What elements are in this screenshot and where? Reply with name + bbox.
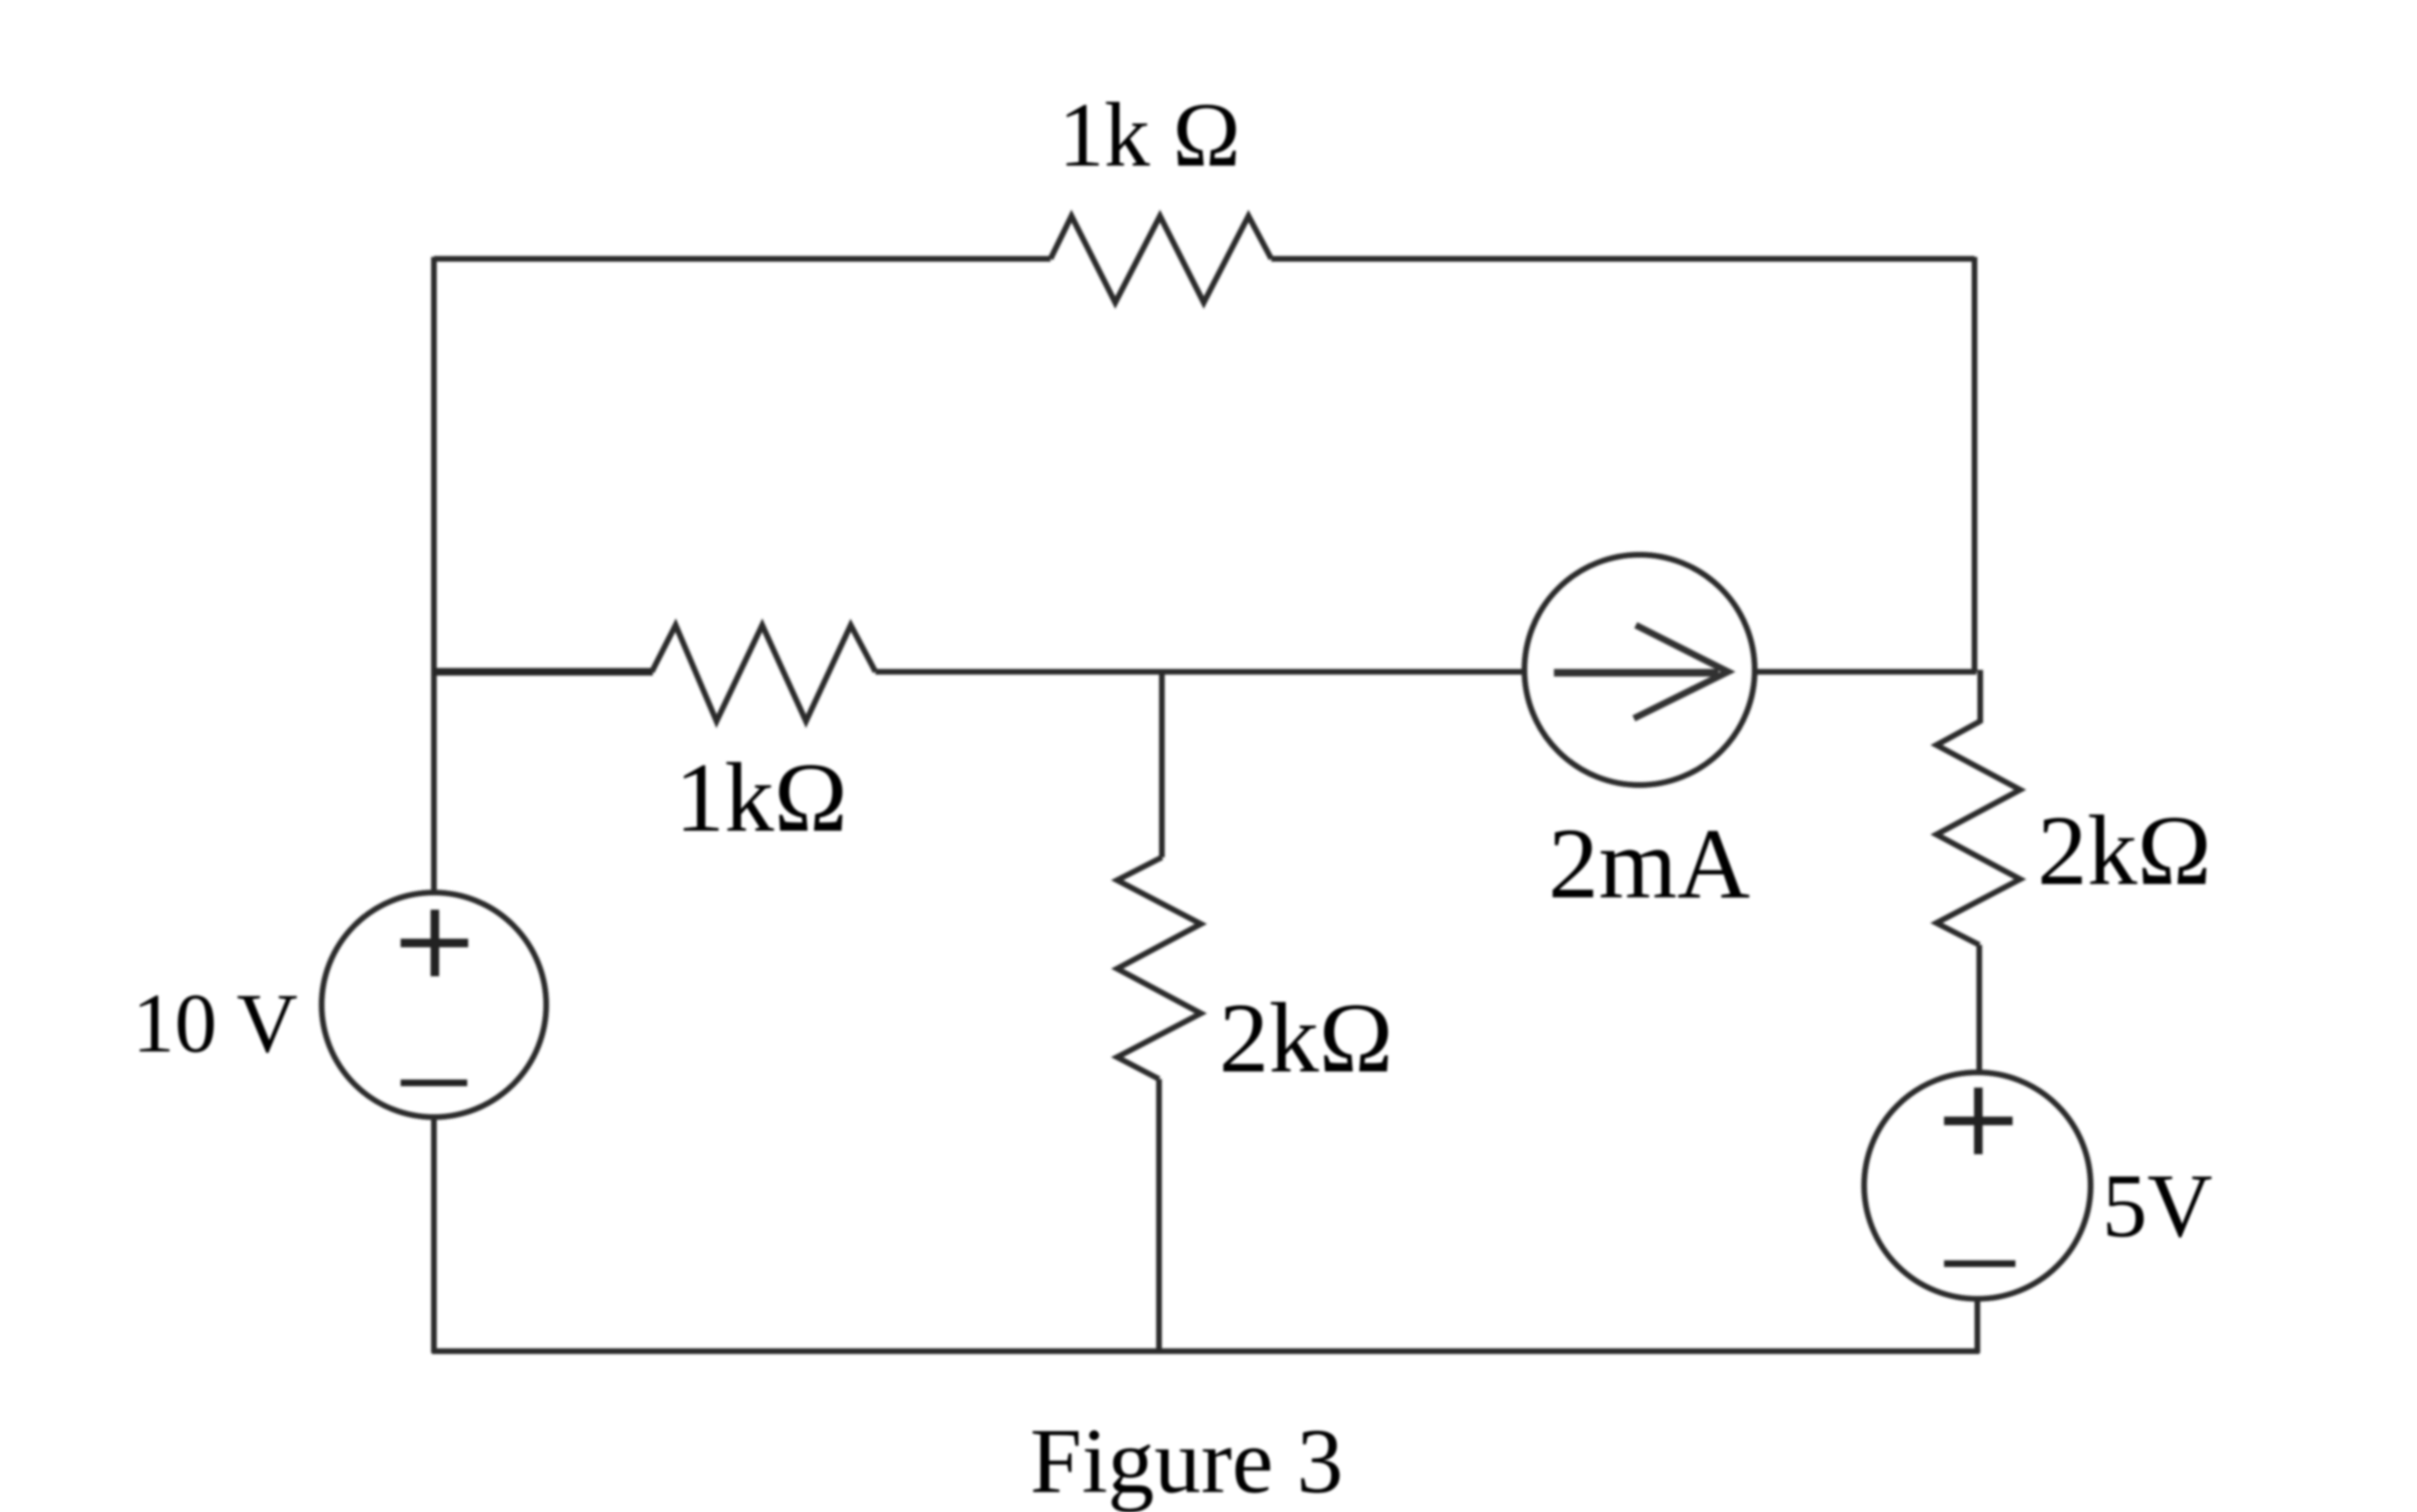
current source I1 2mA circle	[1524, 555, 1755, 785]
resistor R1 1kΩ (top) zigzag	[1051, 216, 1271, 303]
svg-text:2kΩ: 2kΩ	[2037, 795, 2211, 906]
svg-text:10 V: 10 V	[132, 977, 298, 1070]
wire: 5V source to bottom rail	[1975, 1299, 1980, 1353]
wire: middle vertical branch upper (node B down to R3)	[1159, 672, 1165, 857]
minus sign of V1	[401, 1080, 467, 1087]
voltage source V2 5V circle	[1864, 1072, 2091, 1299]
wire: left rail upper (top-left corner down to 10V source)	[431, 257, 437, 894]
resistor R3 2kΩ (middle vertical) zigzag	[1117, 857, 1201, 1079]
wire: right rail (top-right corner down to middle node)	[1972, 257, 1977, 672]
svg-text:Figure 3: Figure 3	[1030, 1410, 1343, 1512]
svg-text:1k Ω: 1k Ω	[1058, 84, 1240, 186]
wire: left rail lower (10V source to bottom rail)	[431, 1117, 437, 1353]
wire: middle vertical branch lower (R3 to bottom rail)	[1156, 1079, 1162, 1353]
svg-text:2kΩ: 2kΩ	[1219, 982, 1393, 1093]
wire: top rail right segment	[1271, 256, 1975, 262]
plus sign of V1	[401, 910, 468, 976]
wire: middle wire left thick segment (node A to R2)	[434, 668, 653, 676]
resistor R2 1kΩ (middle) zigzag	[652, 625, 875, 721]
svg-text:1kΩ: 1kΩ	[675, 743, 847, 853]
wire: middle wire right segment (current source to right rail)	[1755, 669, 1976, 675]
wire: top rail left segment	[434, 256, 1051, 262]
wire: right branch (R4 down to 5V source)	[1976, 945, 1982, 1074]
arrow of current source I1	[1554, 669, 1719, 677]
plus sign of V2	[1944, 1088, 2013, 1154]
svg-text:2mA: 2mA	[1548, 808, 1750, 919]
wire: middle wire center segment (R2 to current source)	[875, 669, 1525, 675]
wire: right stub (middle node down to R4)	[1977, 670, 1983, 723]
wire: bottom rail	[432, 1348, 1979, 1354]
minus sign of V2	[1944, 1261, 2015, 1267]
resistor R4 2kΩ (right vertical) zigzag	[1936, 721, 2020, 945]
voltage source V1 10V circle	[322, 893, 546, 1117]
svg-text:5V: 5V	[2102, 1155, 2212, 1256]
